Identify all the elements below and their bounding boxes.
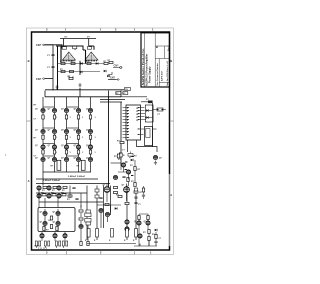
box MOSFET Q28 [53, 211, 61, 215]
ground sym G2 [78, 83, 81, 87]
below-box stubs [36, 238, 65, 248]
right chain transistor Q31 [79, 224, 83, 228]
wire X1 [141, 102, 153, 147]
output MOSFET Q1 + source resistor [35, 108, 46, 119]
br parts col [154, 229, 157, 243]
bias cluster extra resistor R41 [114, 154, 120, 158]
psu wire to CN3b [108, 68, 120, 75]
svg-text:1 1 1 1 1 1: 1 1 1 1 1 1 [38, 248, 47, 250]
right mid transistor Q36 [125, 227, 129, 231]
wire bridge out [108, 79, 117, 81]
psu row C resistor [68, 76, 74, 80]
mid stack resistor R28 [85, 213, 91, 222]
channel2 resistor row2 c [61, 192, 66, 196]
br cell resistor R35 [138, 216, 140, 220]
resistor R6 [70, 70, 74, 72]
emitter resistor R22 [55, 241, 57, 246]
psu row tie wire B [57, 71, 100, 73]
mid resistor R30 [114, 191, 118, 193]
br resistor R37 [148, 230, 150, 241]
emitter resistor R20 [35, 241, 37, 246]
T1 base blobs [63, 60, 75, 62]
IC U1 body [126, 105, 141, 140]
right mid transistor Q35 [125, 220, 129, 224]
br wires [139, 214, 156, 246]
psu link part a [62, 47, 66, 50]
output MOSFET Q14 + source resistor [74, 145, 85, 154]
wire psu top link [56, 46, 94, 50]
output MOSFET Q12 + source resistor [48, 145, 59, 154]
br cell transistor Q37 [134, 221, 141, 225]
right mid vertical [127, 186, 136, 241]
wire rail drop 2 [88, 39, 90, 47]
box resistor R17 [50, 216, 52, 220]
svg-text:A2PS.SCH: A2PS.SCH [161, 70, 164, 81]
T2 base blobs [86, 60, 98, 62]
channel2 resistor row2 a [41, 192, 46, 196]
front box [38, 208, 75, 232]
svg-text:A: A [28, 179, 30, 183]
svg-text:3,900uF 3,900uF: 3,900uF 3,900uF [43, 180, 61, 182]
transistor Q21 [153, 155, 162, 159]
input resistor R14 [52, 186, 57, 192]
IC U1 left pins [123, 108, 127, 138]
wire fuse [153, 109, 167, 111]
grid row jumper r1a [43, 106, 55, 108]
svg-text:CN?: CN? [36, 77, 42, 81]
border zone tick right 1 [170, 120, 174, 122]
emitter resistor R22b [59, 241, 61, 246]
right border fade overlay [168, 174, 171, 246]
bus verticals [45, 79, 121, 97]
box MOSFET Q30 [53, 221, 61, 225]
mid wires2 [97, 184, 127, 229]
channel2 circle row1 a [37, 186, 41, 190]
IC U1 right pins [141, 108, 147, 135]
diode D3 [80, 62, 82, 65]
bridge diode D6 [104, 70, 106, 73]
bias cluster resistor R12 [134, 183, 136, 187]
title block divider col3 [158, 59, 160, 88]
border zone tick left 1 [27, 120, 32, 122]
emitter resistor R21 [44, 241, 46, 246]
output MOSFET Q4 + source resistor [74, 108, 85, 119]
trimmer R7 [128, 152, 137, 159]
wire diodes [145, 111, 153, 118]
output resistor RO2 [94, 229, 98, 243]
wire CN1 to node [45, 44, 53, 46]
capacitor C1 [51, 55, 54, 56]
inter-bus part 1 [116, 92, 121, 95]
output MOSFET Q5 + source resistor [86, 108, 97, 119]
wire relay right [153, 128, 157, 130]
output MOSFET Q16 + source resistor [35, 157, 45, 161]
channel2 circle row1 c [57, 186, 61, 190]
grid tie wire bottom [43, 171, 91, 173]
emitter resistor R27 [87, 242, 89, 246]
svg-text:Rev 2: Rev 2 [168, 45, 170, 51]
bias cluster transistor Q40 [113, 175, 117, 179]
grid row jumper r4b [67, 155, 79, 157]
capacitor C2 [51, 67, 54, 68]
border zone tick top 2 [100, 28, 102, 32]
diode D4 [96, 62, 98, 65]
grid row jumper r3a [43, 143, 55, 145]
wire below IC 1 [127, 140, 129, 152]
output MOSFET Q7 + source resistor [48, 129, 59, 139]
right mid resistor R34 [134, 191, 143, 194]
svg-text:Date Jan-1998 Sheet 1 of 1: Date Jan-1998 Sheet 1 of 1 [166, 60, 169, 86]
svg-text:B: B [156, 46, 159, 48]
diode D8 [146, 109, 148, 112]
title block divider row bot [159, 82, 169, 84]
output MOSFET Q15 + source resistor [86, 145, 97, 154]
right chain resistor R24 [79, 210, 89, 213]
output resistor RO5 [133, 229, 137, 243]
right chain extra rect [86, 210, 91, 225]
output MOSFET Q13 + source resistor [61, 145, 72, 154]
bias cluster diode D10 [131, 159, 133, 162]
mid resistor R32 [105, 203, 109, 205]
output MOSFET Q10 + source resistor [86, 129, 97, 139]
right chain wires [81, 205, 88, 243]
bias cluster transistor Q23 [126, 170, 130, 174]
connector CN4 [117, 79, 119, 80]
mid transistor Q34 [105, 212, 109, 216]
wires second channel verticals [39, 186, 81, 208]
below-box MOSFET QA [40, 232, 44, 238]
resistor R5 [61, 70, 65, 72]
svg-text:CN?: CN? [36, 43, 42, 47]
channel2 mid horizontal wire [39, 201, 103, 203]
br transistor Q39 [138, 234, 142, 238]
border zone tick bottom 1 [66, 250, 68, 255]
grid bottom wire [36, 178, 98, 180]
relay K1 [145, 127, 153, 146]
diode D5 [80, 71, 82, 74]
fuse F1 [157, 108, 163, 116]
svg-text:B: B [28, 59, 30, 63]
second channel row wire 2 [36, 192, 87, 194]
border zone tick top 3 [134, 28, 136, 32]
border zone tick bottom 2 [134, 250, 136, 255]
grid column wire 2 [54, 97, 56, 172]
grid row jumper r4a [43, 155, 55, 157]
below-box MOSFET QB [53, 232, 57, 238]
output MOSFET Q11 + source resistor [35, 145, 46, 154]
rectifier T1 triangle [63, 52, 76, 60]
svg-text:K B: K B [35, 246, 39, 248]
grid column wire 5 [90, 97, 92, 172]
mid resistor R29 [114, 186, 118, 188]
wire CN2 to node [45, 78, 53, 80]
second channel top row wires [36, 183, 110, 185]
title block divider row mid [155, 58, 169, 60]
psu wire cn1 extension [45, 45, 62, 49]
input resistor R15 [62, 186, 67, 192]
br col2 parts [142, 186, 145, 199]
title block divider col2 [154, 33, 156, 87]
emitter resistor R26 [80, 242, 82, 246]
grid row jumper r2a [43, 127, 55, 129]
grid column wire 3 [66, 97, 68, 172]
svg-text:Size Document Number: Size Document Number [156, 63, 159, 86]
heavy vertical V1 [60, 46, 62, 64]
output resistor RO4 [124, 229, 128, 243]
bus wires to right C [100, 97, 147, 102]
thin outer border [27, 28, 174, 255]
input resistor R16 [67, 195, 72, 201]
mid cap C4 [99, 198, 102, 199]
wire vert x108 [108, 97, 110, 190]
grid row jumper r2b [67, 127, 79, 129]
resistor R3 [87, 62, 91, 64]
output MOSFET Q20 + source resistor [86, 157, 93, 161]
cap C3 [75, 199, 78, 200]
wire mid vertical [79, 61, 81, 75]
bias extra smudges [119, 153, 134, 177]
mid bottom vertical 1 [87, 186, 111, 241]
grid row jumper r3b [67, 143, 79, 145]
psu link part b [73, 46, 77, 49]
psu resistor extra R40 [108, 60, 114, 64]
svg-text:3,900uF 3,900uF: 3,900uF 3,900uF [68, 176, 86, 178]
bus wire A [45, 89, 124, 91]
output MOSFET Q2 + source resistor [48, 108, 59, 119]
rectifier T2 triangle [85, 52, 98, 60]
channel2 cap a [72, 188, 75, 189]
svg-text:ALEPH Audio / PassLab Inc.: ALEPH Audio / PassLab Inc. [141, 48, 145, 86]
bias cluster wires [118, 160, 135, 186]
grid left labels [34, 105, 37, 158]
br col1 extra [134, 203, 141, 207]
power resistor RP1 [57, 160, 61, 170]
ground sym G3 [154, 161, 157, 165]
mid transistor Q32 [103, 185, 110, 193]
svg-text:Power Supply: Power Supply [148, 66, 151, 83]
br col parts rect [135, 188, 138, 191]
heavy vertical V0 long [57, 46, 59, 90]
input transistor Q24 [37, 194, 41, 198]
input transistor Q25 [47, 194, 51, 198]
wire vert x121 [120, 102, 122, 166]
resistor R1 [61, 62, 65, 64]
channel2 resistor row2 b [51, 192, 56, 196]
emitter resistor R21b [48, 241, 50, 246]
output MOSFET Q19 + source resistor [74, 157, 81, 161]
title block frame [141, 33, 170, 87]
IC U1 pin label dashes right [138, 107, 140, 135]
wire rail drop 1 [63, 39, 65, 47]
title block divider row top [155, 45, 169, 47]
diode enclosure box [145, 105, 153, 122]
bus wire B grid rail [45, 96, 121, 98]
mid resistor R31 [116, 194, 122, 197]
grid column wire 4 [78, 97, 80, 172]
wire top rail [60, 38, 96, 40]
mid diode D13 [115, 207, 117, 210]
svg-text:B: B [170, 59, 172, 63]
svg-text:CN?: CN? [114, 65, 119, 68]
power resistor RP2 [81, 160, 85, 170]
bias cluster transistor Q22 [121, 163, 125, 167]
input resistor R13 [42, 186, 47, 192]
IC U1 pin label dashes left [127, 107, 129, 138]
ground sym G1 [55, 85, 58, 89]
box MOSFET Q29 [40, 221, 48, 225]
svg-text:A: A [170, 193, 172, 197]
output resistor RO1 [85, 229, 90, 243]
box MOSFET Q27 [40, 211, 48, 215]
bus A end connector [125, 88, 131, 91]
svg-text:CN?: CN? [110, 76, 115, 79]
box resistor R18 [43, 227, 45, 231]
bias cluster extra cap C5 [122, 177, 125, 178]
title block divider col1 [144, 33, 146, 87]
resistor R4 [104, 62, 108, 64]
output MOSFET Q6 + source resistor [35, 129, 46, 139]
heavy vertical V2 [83, 50, 86, 64]
emitter resistor R20b [39, 241, 41, 246]
right chain resistor R25 [79, 218, 89, 221]
right mid resistor R33 [125, 202, 129, 204]
right chain diode D11 [88, 230, 90, 233]
grid row jumper r1b [67, 106, 79, 108]
br bottom tie wire [134, 241, 157, 247]
mid transistor Q32b [122, 185, 130, 193]
bridge diode D7 [107, 75, 109, 78]
box wires [45, 209, 58, 232]
output MOSFET Q18 + source resistor [61, 157, 69, 161]
emitter resistor R23b [66, 241, 68, 246]
mid col rects on x97 [95, 189, 99, 198]
diode D9 [146, 116, 148, 119]
mid transistor Q33 [99, 208, 103, 212]
bias cluster resistor R11 [127, 178, 129, 182]
emitter resistor R23 [62, 241, 64, 246]
grid column wire 1 [42, 97, 44, 186]
output MOSFET Q17 + source resistor [48, 157, 57, 161]
psu link part c [87, 47, 91, 50]
box resistor R19 [56, 227, 58, 231]
thick inner border [32, 32, 170, 250]
right mid parts [134, 197, 137, 198]
br cell transistor Q38 [144, 221, 151, 225]
connector X1 [146, 99, 153, 103]
wire below IC 2 [137, 140, 158, 152]
output resistor RO3 [109, 229, 113, 243]
psu row tie wire A [57, 63, 104, 65]
box inner resistor extra a [49, 220, 53, 229]
bottom tie wire [87, 243, 136, 245]
input transistor Q26 [57, 194, 61, 198]
wire left vertical [52, 45, 54, 79]
channel2 circle row1 b [47, 186, 51, 190]
border zone tick top 1 [65, 28, 67, 32]
br cell resistor R36 [147, 216, 149, 220]
inter-bus part 2 [123, 92, 128, 95]
bias cluster resistor R9 [5, 153, 125, 157]
output MOSFET Q3 + source resistor [61, 108, 72, 119]
output MOSFET Q9 + source resistor [74, 129, 85, 139]
resistor R2 [71, 62, 75, 64]
bias cluster resistor R10 [134, 167, 136, 171]
output MOSFET Q8 + source resistor [61, 129, 72, 139]
resistor R8 [117, 141, 124, 144]
title block divider sub [164, 46, 166, 59]
below-box MOSFET QC [63, 232, 67, 238]
bias corner wire [111, 162, 122, 164]
